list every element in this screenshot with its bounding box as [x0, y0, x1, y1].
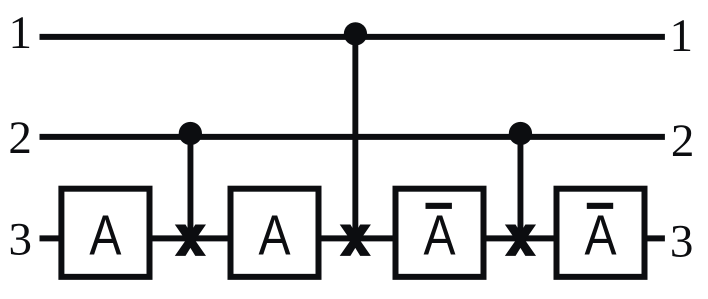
wire vertical control 3 (line 2 down to X3) [518, 137, 524, 240]
gate box A1 [61, 189, 149, 277]
wire line 1 [40, 34, 665, 40]
wire vertical control 2 (line 1 down to X2) [352, 37, 358, 240]
svg-text:3: 3 [8, 214, 32, 266]
svg-text:1: 1 [670, 10, 694, 62]
swap cross X2 [340, 225, 371, 256]
overline bar of box 3 [426, 203, 452, 209]
svg-text:A: A [584, 205, 616, 267]
swap cross X3 [505, 225, 536, 256]
gate box A3 (NOT A) [396, 189, 484, 277]
svg-text:A: A [89, 205, 121, 267]
control dot left on line 2 [179, 122, 202, 145]
wire vertical control 1 (line 2 down to X1) [187, 137, 193, 240]
control dot on line 1 [344, 22, 367, 45]
svg-text:2: 2 [8, 112, 32, 164]
wire line 2 [40, 134, 665, 140]
svg-text:A: A [423, 205, 455, 267]
wire line 3 [40, 235, 665, 241]
control dot right on line 2 [509, 122, 532, 145]
svg-text:1: 1 [8, 7, 32, 59]
overline bar of box 4 [587, 203, 613, 209]
gate box A4 (NOT A) [557, 189, 645, 277]
gate box A2 [231, 189, 319, 277]
svg-text:A: A [258, 205, 290, 267]
svg-text:3: 3 [670, 215, 694, 267]
svg-text:2: 2 [671, 115, 695, 167]
swap cross X1 [175, 225, 206, 256]
